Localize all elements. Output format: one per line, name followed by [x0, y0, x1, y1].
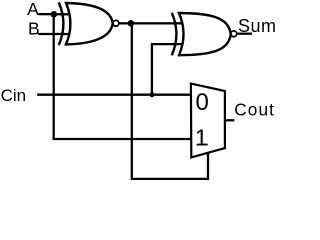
wire A branch down to mux input 1 [54, 14, 191, 139]
svg-text:0: 0 [196, 89, 209, 116]
svg-text:A: A [27, 0, 39, 19]
svg-text:B: B [28, 18, 40, 38]
wire Cin branch up to gate U2 lower input [152, 44, 182, 95]
xnor gate U2 [172, 13, 237, 55]
junction dot on U1 output [128, 20, 135, 27]
junction dot on A [51, 11, 58, 18]
svg-text:Cin: Cin [1, 86, 27, 105]
xnor gate U1 [59, 2, 119, 45]
svg-text:1: 1 [195, 124, 208, 150]
junction dot on Cin [150, 92, 155, 97]
wire A input [39, 13, 71, 15]
wire Cout output [225, 119, 234, 121]
wire U1 output to U2 upper input [119, 22, 182, 24]
wire U1 output branch down to mux select [132, 23, 208, 179]
wire Cin to mux input 0 [37, 94, 191, 96]
mux U3 [191, 84, 225, 158]
wire Sum output [237, 33, 252, 35]
svg-text:Cout: Cout [234, 99, 275, 119]
wire B input [38, 33, 71, 35]
